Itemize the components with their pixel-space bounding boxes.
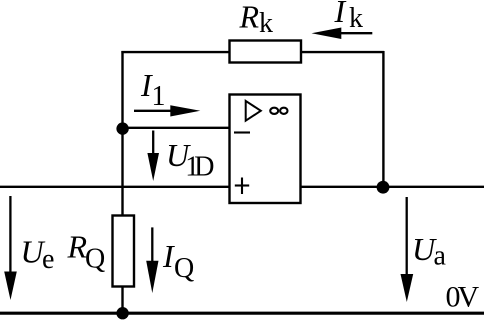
svg-text:e: e [42,244,54,275]
svg-text:a: a [434,241,447,272]
svg-text:V: V [458,280,480,313]
svg-text:Q: Q [85,244,105,275]
svg-text:D: D [194,152,214,183]
svg-text:k: k [259,8,273,39]
svg-text:Q: Q [174,253,194,284]
svg-text:k: k [349,3,363,34]
svg-text:R: R [239,0,260,35]
svg-text:1: 1 [152,81,166,112]
svg-text:I: I [334,0,347,29]
